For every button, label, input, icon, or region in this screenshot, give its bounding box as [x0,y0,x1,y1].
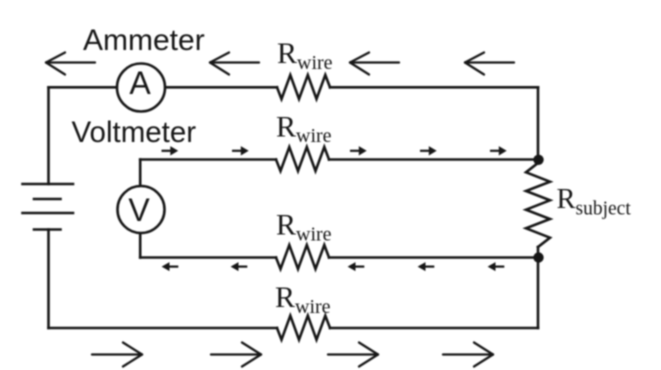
svg-text:Ammeter: Ammeter [83,24,205,57]
svg-text:Voltmeter: Voltmeter [72,116,197,149]
svg-text:A: A [129,65,151,101]
svg-text:V: V [128,192,150,228]
